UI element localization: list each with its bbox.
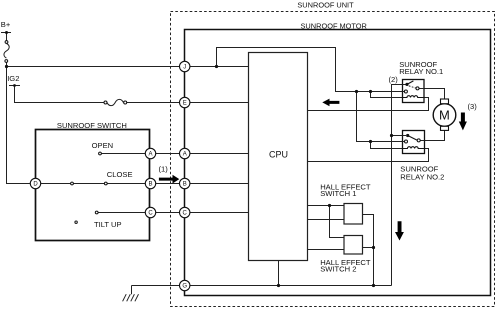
svg-text:C: C [183,211,188,217]
svg-text:SUNROOF MOTOR: SUNROOF MOTOR [301,21,367,30]
svg-text:(3): (3) [468,102,478,111]
svg-text:D: D [33,182,38,188]
svg-text:J: J [183,65,186,71]
svg-text:G: G [182,284,187,290]
svg-text:(2): (2) [389,75,399,84]
svg-text:A: A [148,152,152,158]
svg-text:SWITCH 2: SWITCH 2 [320,265,356,274]
svg-text:RELAY NO.2: RELAY NO.2 [400,173,444,182]
svg-text:M: M [439,108,450,123]
svg-text:CLOSE: CLOSE [107,170,133,179]
svg-text:A: A [183,152,187,158]
svg-text:OPEN: OPEN [92,141,114,150]
svg-text:C: C [148,211,153,217]
svg-text:RELAY NO.1: RELAY NO.1 [399,67,443,76]
svg-text:SUNROOF SWITCH: SUNROOF SWITCH [57,121,127,130]
svg-text:B: B [148,182,152,188]
svg-text:B+: B+ [1,20,11,29]
svg-text:IG2: IG2 [7,74,19,83]
svg-text:E: E [183,101,187,107]
svg-text:SWITCH 1: SWITCH 1 [320,189,356,198]
svg-text:SUNROOF UNIT: SUNROOF UNIT [297,1,354,10]
svg-text:CPU: CPU [269,149,288,159]
svg-text:B: B [183,182,187,188]
svg-text:(1): (1) [159,165,169,174]
svg-text:TILT UP: TILT UP [94,220,122,229]
